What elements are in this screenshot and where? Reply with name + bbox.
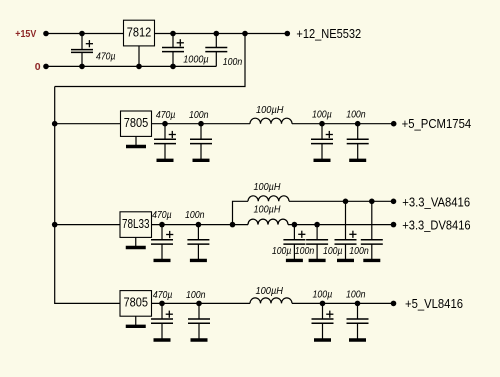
junction 100n top — [214, 31, 220, 37]
capacitor 100n (U3 output) — [187, 225, 209, 261]
regulator U1 7812 — [124, 20, 155, 46]
ground of U4 7805 — [126, 316, 146, 326]
capacitor 100n (PCM1754) — [347, 124, 369, 161]
capacitor 100n (7812 output) — [205, 34, 227, 67]
polarity + of 100u DV — [298, 231, 305, 238]
inductor L4 100uH — [250, 298, 292, 304]
svg-text:1000µ: 1000µ — [183, 54, 209, 65]
svg-text:+15V: +15V — [15, 28, 36, 40]
svg-text:100n: 100n — [189, 110, 209, 121]
junction 100u DV — [292, 222, 298, 228]
svg-text:100µH: 100µH — [256, 105, 284, 116]
svg-text:+5_VL8416: +5_VL8416 — [405, 296, 463, 311]
capacitor 470u (U4 output) — [151, 303, 173, 340]
svg-text:7812: 7812 — [127, 24, 152, 39]
polarity + of 470u — [169, 131, 176, 138]
ground of U2 7805 — [126, 136, 146, 146]
svg-text:100µ: 100µ — [323, 246, 343, 257]
capacitor 100u (DV8416) — [283, 225, 305, 261]
polarity + of 1000u — [177, 39, 184, 46]
capacitor 470u (7812 input) — [71, 34, 93, 67]
junction 100n VA on VA rail — [369, 199, 375, 205]
regulator U3 78L33 — [120, 212, 152, 238]
svg-text:100n: 100n — [185, 210, 205, 221]
node +15V terminal — [43, 31, 49, 37]
capacitor 1000u (7812 output) — [162, 34, 184, 67]
polarity + of 100u — [326, 311, 333, 318]
wire VA rail after L2 — [289, 200, 394, 202]
svg-text:100n: 100n — [346, 289, 366, 300]
capacitor 100n (DV8416) — [306, 225, 328, 261]
svg-text:100µ: 100µ — [313, 289, 333, 300]
ground of U3 78L33 — [126, 237, 146, 247]
capacitor 100u (PCM1754) — [311, 124, 333, 161]
svg-text:100n: 100n — [223, 57, 243, 68]
svg-text:+12_NE5532: +12_NE5532 — [296, 26, 361, 41]
svg-text:0: 0 — [35, 61, 41, 73]
capacitor 470u (U2 output) — [154, 124, 176, 161]
svg-text:470µ: 470µ — [152, 210, 172, 221]
svg-text:+5_PCM1754: +5_PCM1754 — [402, 116, 472, 131]
svg-text:100µH: 100µH — [254, 182, 282, 193]
junction 100u — [320, 301, 326, 307]
wire +12V top rail — [46, 33, 287, 35]
junction 470u — [159, 222, 165, 228]
node +12_NE5532 terminal — [285, 31, 291, 37]
junction 7812 ground pin on 0 rail — [136, 64, 142, 70]
node +5_VL8416 terminal — [391, 301, 397, 307]
svg-text:100n: 100n — [349, 246, 369, 257]
capacitor 100n (U4 output) — [188, 303, 210, 340]
svg-text:100µH: 100µH — [256, 286, 284, 297]
wire 78L33 input rail — [55, 224, 120, 226]
junction 470u — [162, 121, 168, 127]
inductor L3 100uH (DV) — [248, 219, 288, 225]
svg-text:+3.3_VA8416: +3.3_VA8416 — [402, 194, 470, 209]
polarity + of 470u — [166, 311, 173, 318]
junction 470u — [159, 301, 165, 307]
junction 100n — [198, 121, 204, 127]
junction trunk to 7805 row — [52, 121, 58, 127]
capacitor 100u (VL8416) — [312, 303, 334, 340]
junction +12V feed to lower sections — [242, 31, 248, 37]
junction 100u — [319, 121, 325, 127]
junction 100n — [196, 222, 202, 228]
svg-text:7805: 7805 — [124, 115, 149, 130]
wire U4 output rail — [152, 302, 251, 304]
svg-text:78L33: 78L33 — [122, 216, 150, 231]
svg-text:100µ: 100µ — [272, 246, 292, 257]
wire 78L33 output rail — [152, 224, 249, 226]
capacitor 100u (VA8416) — [335, 201, 357, 260]
wire after L1 — [292, 123, 394, 125]
polarity + of 470u — [166, 231, 173, 238]
wire after L4 — [292, 302, 394, 304]
node 0 terminal — [43, 64, 49, 70]
junction on +15V rail at 470u — [79, 31, 85, 37]
polarity + of 100u — [326, 131, 333, 138]
svg-text:100µ: 100µ — [312, 109, 332, 120]
junction 100n — [355, 301, 361, 307]
capacitor 100n (U2 output) — [190, 124, 212, 161]
regulator U4 7805 — [120, 291, 152, 317]
wire riser to VA rail — [233, 201, 249, 224]
svg-text:7805: 7805 — [124, 295, 149, 310]
svg-text:470µ: 470µ — [153, 290, 173, 301]
node +3.3_DV8416 terminal — [391, 222, 397, 228]
wire 0 bottom rail — [46, 65, 216, 67]
junction 1000u top — [170, 31, 176, 37]
svg-text:100µH: 100µH — [254, 205, 282, 216]
wire trunk vertical to lower rows — [55, 87, 120, 304]
svg-text:100n: 100n — [295, 246, 315, 257]
wire DV rail after L3 — [288, 224, 394, 226]
junction split to VA rail — [230, 222, 236, 228]
svg-text:470µ: 470µ — [96, 51, 116, 62]
polarity + of 470u — [86, 40, 93, 47]
svg-text:470µ: 470µ — [156, 110, 176, 121]
capacitor 470u (U3 output) — [151, 225, 173, 261]
junction 1000u bottom — [170, 64, 176, 70]
wire 7805 input rail — [55, 123, 121, 125]
junction trunk to 78L33 row — [52, 222, 58, 228]
junction 100n — [196, 301, 202, 307]
wire 7805 output rail — [152, 123, 251, 125]
svg-text:+3.3_DV8416: +3.3_DV8416 — [402, 217, 470, 232]
junction 100n DV — [314, 222, 320, 228]
junction on 0 rail at 470u — [79, 64, 85, 70]
regulator U2 7805 — [121, 111, 152, 136]
svg-text:100n: 100n — [186, 290, 206, 301]
svg-text:100n: 100n — [346, 109, 366, 120]
node +5_PCM1754 terminal — [391, 121, 397, 127]
polarity + of 100u VA — [349, 231, 356, 238]
node +3.3_VA8416 terminal — [391, 199, 397, 205]
capacitor 100n (VA8416) — [361, 201, 383, 260]
inductor L1 100uH — [250, 118, 292, 123]
wire feed down from +12V rail — [55, 34, 245, 87]
wire 7812 ground pin — [138, 46, 140, 67]
capacitor 100n (VL8416) — [347, 303, 369, 340]
junction 100n — [355, 121, 361, 127]
junction 100u VA on VA rail — [343, 199, 349, 205]
inductor L2 100uH (VA) — [248, 196, 289, 201]
